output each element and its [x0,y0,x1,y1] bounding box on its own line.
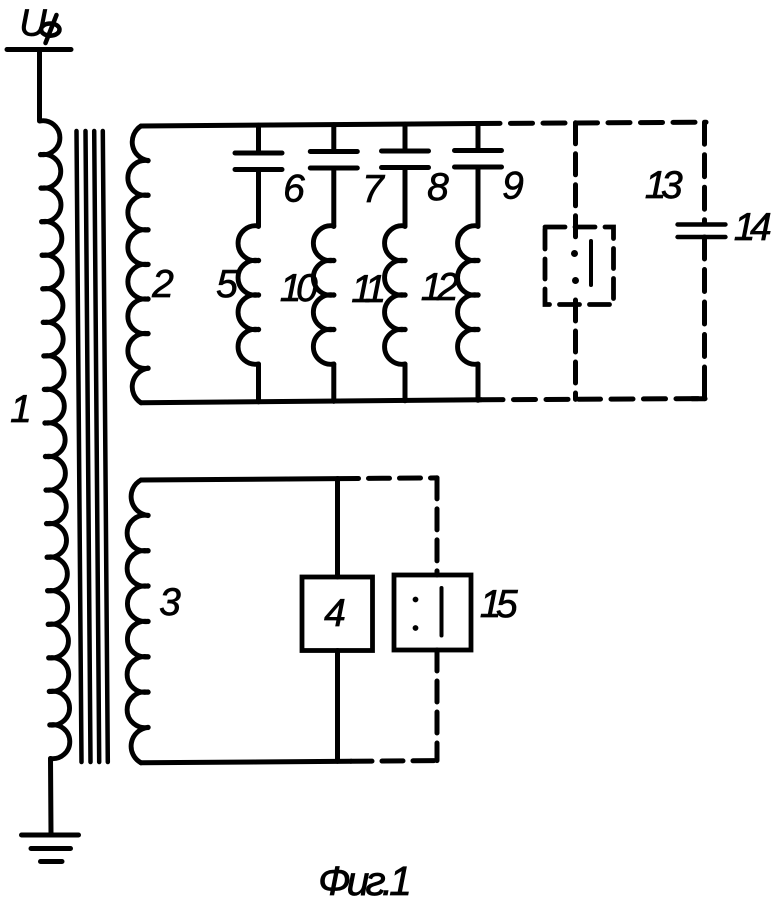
svg-text:14: 14 [734,206,771,249]
svg-text:5: 5 [216,263,238,306]
svg-text:9: 9 [502,165,524,208]
svg-text:11: 11 [351,268,383,311]
svg-text:2: 2 [151,263,174,306]
svg-text:4: 4 [324,592,346,635]
svg-text:12: 12 [421,266,459,309]
svg-text:1: 1 [10,388,32,431]
svg-text:15: 15 [480,583,518,626]
svg-text:3: 3 [159,581,181,624]
svg-text:Фиг.1: Фиг.1 [318,858,409,904]
svg-text:8: 8 [427,166,449,209]
svg-text:6: 6 [283,168,305,211]
svg-text:13: 13 [645,164,683,207]
svg-text:7: 7 [362,168,385,211]
